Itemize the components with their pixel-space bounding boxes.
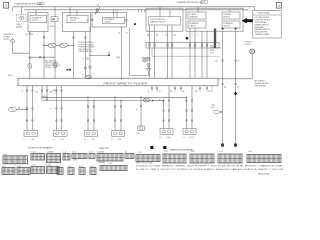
svg-text:(GR): (GR)	[73, 160, 77, 162]
svg-text:1-02: 1-02	[210, 53, 213, 55]
svg-text:2B: 2B	[237, 87, 240, 89]
connector C-25 pinout grid	[218, 151, 242, 163]
svg-text:1-3B: 1-3B	[157, 100, 161, 102]
junction dot unit3	[134, 23, 136, 25]
svg-text:SUPPLY: SUPPLY	[4, 39, 11, 41]
rear speaker pair 2	[186, 86, 193, 129]
wire D x73.5	[73, 32, 74, 79]
unit box radio cd tuner	[146, 8, 183, 31]
svg-text:L-03: L-03	[31, 139, 34, 141]
page reference box 4	[276, 3, 281, 9]
svg-text:8B: 8B	[156, 35, 159, 37]
svg-text:B: B	[154, 148, 156, 150]
antenna branch wire	[136, 97, 142, 126]
svg-text:C-30: C-30	[248, 151, 252, 153]
noise capacitor	[147, 63, 150, 68]
front speaker connector 1	[24, 131, 38, 142]
connector C-101 pinout grid	[31, 152, 45, 160]
svg-text:C-102: C-102	[137, 152, 142, 154]
note anti-theft	[255, 80, 270, 88]
rear speaker connector 2	[183, 129, 197, 140]
column switch circuit box	[222, 12, 240, 19]
wire drops to interface 3	[114, 10, 118, 17]
interface circuit 2	[67, 15, 88, 22]
speaker ground label	[142, 57, 151, 62]
svg-text:2B: 2B	[159, 91, 162, 93]
svg-text:2: 2	[5, 4, 7, 8]
wire F x90	[83, 27, 110, 79]
etacs feed wire	[13, 43, 30, 53]
connector C-09 pinout grid	[2, 166, 15, 175]
splice oval on runs	[41, 90, 57, 101]
connector grid C-08	[3, 154, 28, 164]
connector ellipse on wire C	[53, 63, 57, 68]
junction oval right	[211, 105, 223, 114]
note keyless	[45, 61, 61, 70]
front speaker connector 2	[53, 131, 67, 142]
antenna branch connector	[137, 126, 145, 135]
wires tuner unit to band	[150, 25, 173, 78]
svg-text:CHECK THE 1-02: CHECK THE 1-02	[79, 51, 93, 53]
svg-text:6: 6	[51, 108, 52, 110]
svg-text:(+): (+)	[160, 137, 163, 139]
twin squares mark	[67, 69, 71, 71]
connector C-34 pinout grid	[72, 152, 87, 162]
wire I x129.5	[127, 28, 149, 76]
svg-text:C-36: C-36	[108, 163, 112, 165]
wire E x85.5	[84, 32, 86, 79]
run to rear 2	[46, 86, 163, 101]
wire drop to interface 1	[35, 10, 37, 16]
svg-text:D-10: D-10	[211, 107, 215, 109]
tweeter pair 2	[114, 97, 121, 131]
svg-text:POINTS: POINTS	[245, 44, 252, 46]
connector mini 3 pinout grid	[79, 166, 85, 175]
svg-text:CIRCUIT: CIRCUIT	[223, 25, 230, 27]
svg-text:B: B	[136, 109, 138, 111]
wire drop to column switch box	[229, 10, 231, 12]
note w/o sws	[143, 58, 152, 64]
unit box 2	[63, 13, 91, 32]
bus line 1	[13, 7, 255, 11]
black mark pin	[186, 37, 188, 39]
svg-text:42 SWS: 42 SWS	[45, 67, 52, 69]
svg-text:(+): (+)	[84, 139, 87, 141]
svg-text:(+): (+)	[24, 139, 27, 141]
right wire 1	[214, 28, 224, 147]
svg-text:CIRCUIT: CIRCUIT	[105, 21, 112, 23]
wire labels below units	[147, 35, 198, 37]
interface circuit 5	[222, 21, 240, 28]
svg-text:(F): (F)	[87, 20, 90, 22]
cd auto changer box	[188, 12, 206, 19]
svg-text:ALARM: ALARM	[16, 25, 22, 28]
connector C-103 pinout grid	[47, 152, 61, 163]
shield ground square 1	[150, 146, 156, 150]
svg-text:4B: 4B	[224, 87, 227, 89]
svg-text:4B: 4B	[18, 107, 21, 109]
unit box cd changer column	[186, 8, 243, 31]
shield ground square 2	[163, 146, 169, 150]
svg-text:D-09: D-09	[191, 151, 195, 153]
link wire A to C	[30, 57, 55, 58]
svg-text:B: BLACK LG: LIGHT GREEN G: B: BLACK LG: LIGHT GREEN G: GREEN L: BLU…	[136, 165, 284, 168]
pin mark unit3 right	[125, 20, 127, 22]
cd tv tuner circuit box	[149, 17, 181, 25]
diode box	[50, 17, 59, 28]
splice link with ovals	[43, 43, 73, 47]
wire drop to horn	[21, 7, 23, 14]
arrow to column unit	[242, 18, 253, 23]
svg-text:2B: 2B	[36, 92, 39, 94]
wire H x121.5	[119, 27, 122, 79]
svg-text:1-4: 1-4	[25, 34, 28, 36]
run to rear 1	[41, 86, 186, 98]
svg-text:8AW004716AB: 8AW004716AB	[258, 173, 270, 176]
svg-text:4: 4	[278, 4, 280, 8]
svg-text:2: 2	[46, 37, 47, 39]
connector C-36 pinout grid	[100, 163, 127, 170]
svg-text:(+): (+)	[53, 139, 56, 141]
svg-text:11: 11	[238, 61, 240, 63]
rear speaker pair 1	[157, 86, 170, 129]
right wire 2	[234, 28, 239, 147]
svg-text:(FRONT): (FRONT)	[142, 60, 149, 62]
unit label leader wire	[152, 48, 220, 56]
svg-text:1B: 1B	[147, 91, 150, 93]
svg-text:COMMUNICATION BUS LINE: COMMUNICATION BUS LINE	[176, 1, 204, 4]
connector C-30 pinout grid	[247, 151, 281, 162]
svg-text:3: 3	[192, 35, 193, 37]
label COMMUNICATION BUS LINE left	[14, 2, 44, 6]
wire drop to diode	[54, 7, 56, 17]
svg-text:FRONT DOOR SPEAKER: FRONT DOOR SPEAKER	[28, 147, 53, 150]
inline connector strip	[146, 43, 219, 49]
ground	[146, 68, 152, 71]
wire C x55	[54, 22, 56, 78]
wires changer unit to band	[190, 28, 207, 78]
svg-text:(+): (+)	[183, 137, 186, 139]
wire drop to cd tuner	[160, 7, 170, 17]
connector C-104 pinout grid	[31, 165, 45, 174]
right wire ticks	[222, 83, 240, 88]
legend text	[136, 162, 284, 175]
unit box 3	[92, 13, 127, 27]
tweeter connector 1	[84, 131, 98, 142]
front speaker pair 2	[51, 86, 63, 131]
stubs below band	[147, 86, 212, 93]
connector mini 4 pinout grid	[90, 166, 96, 175]
svg-text:REAR DOOR SPEAKER: REAR DOOR SPEAKER	[170, 149, 193, 152]
connector D-09 pinout grid	[190, 151, 214, 163]
svg-text:SWITCH: SWITCH	[223, 16, 230, 18]
svg-text:B: B	[127, 33, 129, 35]
front speaker pair 1	[22, 86, 52, 131]
svg-text:FRONT WIRE TO PLAYER: FRONT WIRE TO PLAYER	[104, 83, 148, 86]
label 6-02	[8, 75, 13, 77]
page reference box 2	[4, 3, 9, 9]
connector D-05 pinout grid	[163, 151, 186, 163]
interface circuit 1	[30, 15, 47, 22]
band right extension	[218, 78, 252, 80]
svg-text:L-04: L-04	[60, 139, 63, 141]
connector C-102 pinout grid	[136, 152, 160, 161]
note w/ sws monitor	[79, 42, 96, 53]
svg-text:CIRCUIT: CIRCUIT	[70, 20, 77, 22]
tweeter pair 1	[87, 97, 94, 131]
fusible link	[11, 38, 15, 43]
connector C-106 pinout grid	[47, 165, 60, 174]
wire drop to interface 2	[70, 7, 77, 16]
splice point symbol	[245, 41, 255, 79]
label radio connector side	[210, 44, 222, 54]
label front door speaker	[28, 147, 53, 150]
pin mark unit3 left	[87, 19, 94, 22]
interface circuit 3	[103, 17, 125, 23]
svg-text:C-25: C-25	[214, 61, 218, 63]
connector L pinout grid	[125, 152, 134, 159]
svg-text:CHANGER CIRCUIT: CHANGER CIRCUIT	[150, 21, 166, 24]
splice points box	[253, 10, 281, 38]
wire A x29.8	[25, 32, 33, 79]
svg-text:(12V): (12V)	[116, 57, 121, 59]
tweeter connector 2	[111, 131, 125, 142]
svg-text:8L: 8L	[119, 33, 121, 35]
label 12V	[116, 57, 121, 59]
svg-text:D-09: D-09	[190, 137, 194, 139]
label rear door speaker	[170, 149, 193, 152]
connector mini 2 pinout grid	[68, 166, 74, 175]
rear speaker connector 1	[160, 129, 174, 140]
svg-text:B: B	[22, 90, 24, 92]
etacs label	[4, 33, 14, 41]
svg-text:3B: 3B	[170, 91, 173, 93]
svg-text:CIRCUIT: CIRCUIT	[189, 25, 196, 27]
wire B x44	[43, 32, 46, 79]
svg-text:D-02: D-02	[137, 133, 141, 135]
bus line 2	[24, 9, 248, 11]
svg-text:C-105(B): C-105(B)	[98, 162, 105, 164]
svg-text:(6-02): (6-02)	[8, 75, 13, 77]
svg-text:(GND): (GND)	[52, 90, 57, 92]
clock spring	[95, 5, 100, 15]
svg-text:STEERING WHEEL: STEERING WHEEL	[255, 34, 270, 36]
theft-alarm horn	[16, 14, 27, 28]
svg-text:5: 5	[197, 35, 198, 37]
wire stub below page ref	[12, 7, 14, 11]
svg-text:6: 6	[83, 59, 84, 61]
svg-text:CIRCUIT: CIRCUIT	[32, 20, 39, 22]
bus stub ticks	[139, 10, 145, 13]
svg-text:TWEETER: TWEETER	[99, 148, 110, 150]
shielded cable bar	[214, 29, 216, 49]
svg-text:14: 14	[31, 34, 33, 36]
splice oval rear	[143, 98, 153, 102]
connector mini 1 pinout grid	[57, 166, 63, 175]
unit box front speaker	[28, 13, 48, 32]
svg-text:D-05: D-05	[164, 151, 168, 153]
svg-text:L-06: L-06	[118, 139, 121, 141]
connector C-35 pinout grid	[89, 152, 95, 159]
svg-text:IZER SYSTEM: IZER SYSTEM	[255, 85, 267, 87]
svg-text:B: B	[167, 148, 169, 150]
svg-text:D-04: D-04	[167, 137, 171, 139]
svg-text:TOUCH SIGNAL: TOUCH SIGNAL	[257, 12, 270, 15]
label tweeter	[99, 148, 110, 150]
svg-text:R: RED P: PINK V: VIOLET: R: RED P: PINK V: VIOLET PU: PURPLE SI: …	[136, 168, 284, 171]
svg-text:(+): (+)	[111, 139, 114, 141]
harness band front wiring	[18, 78, 218, 86]
svg-text:C-25: C-25	[219, 151, 223, 153]
svg-text:2B: 2B	[174, 35, 177, 37]
svg-text:2-8: 2-8	[97, 5, 100, 7]
label COMMUNICATION BUS LINE right	[176, 1, 208, 4]
connector C-105 pinout grid	[97, 152, 123, 165]
svg-text:CHANGER: CHANGER	[189, 15, 198, 18]
svg-text:WIRE COLOR CODE: WIRE COLOR CODE	[136, 162, 153, 164]
connector C-10 pinout grid	[17, 166, 30, 175]
connector C-10b pinout grid	[63, 152, 70, 160]
svg-text:8B: 8B	[195, 91, 198, 93]
svg-text:L-05: L-05	[91, 139, 94, 141]
svg-text:4B: 4B	[183, 91, 186, 93]
interface circuit 4	[188, 21, 206, 28]
wire drop to cd changer	[197, 7, 199, 12]
svg-text:9B: 9B	[209, 91, 212, 93]
left gnd oval	[9, 107, 28, 112]
